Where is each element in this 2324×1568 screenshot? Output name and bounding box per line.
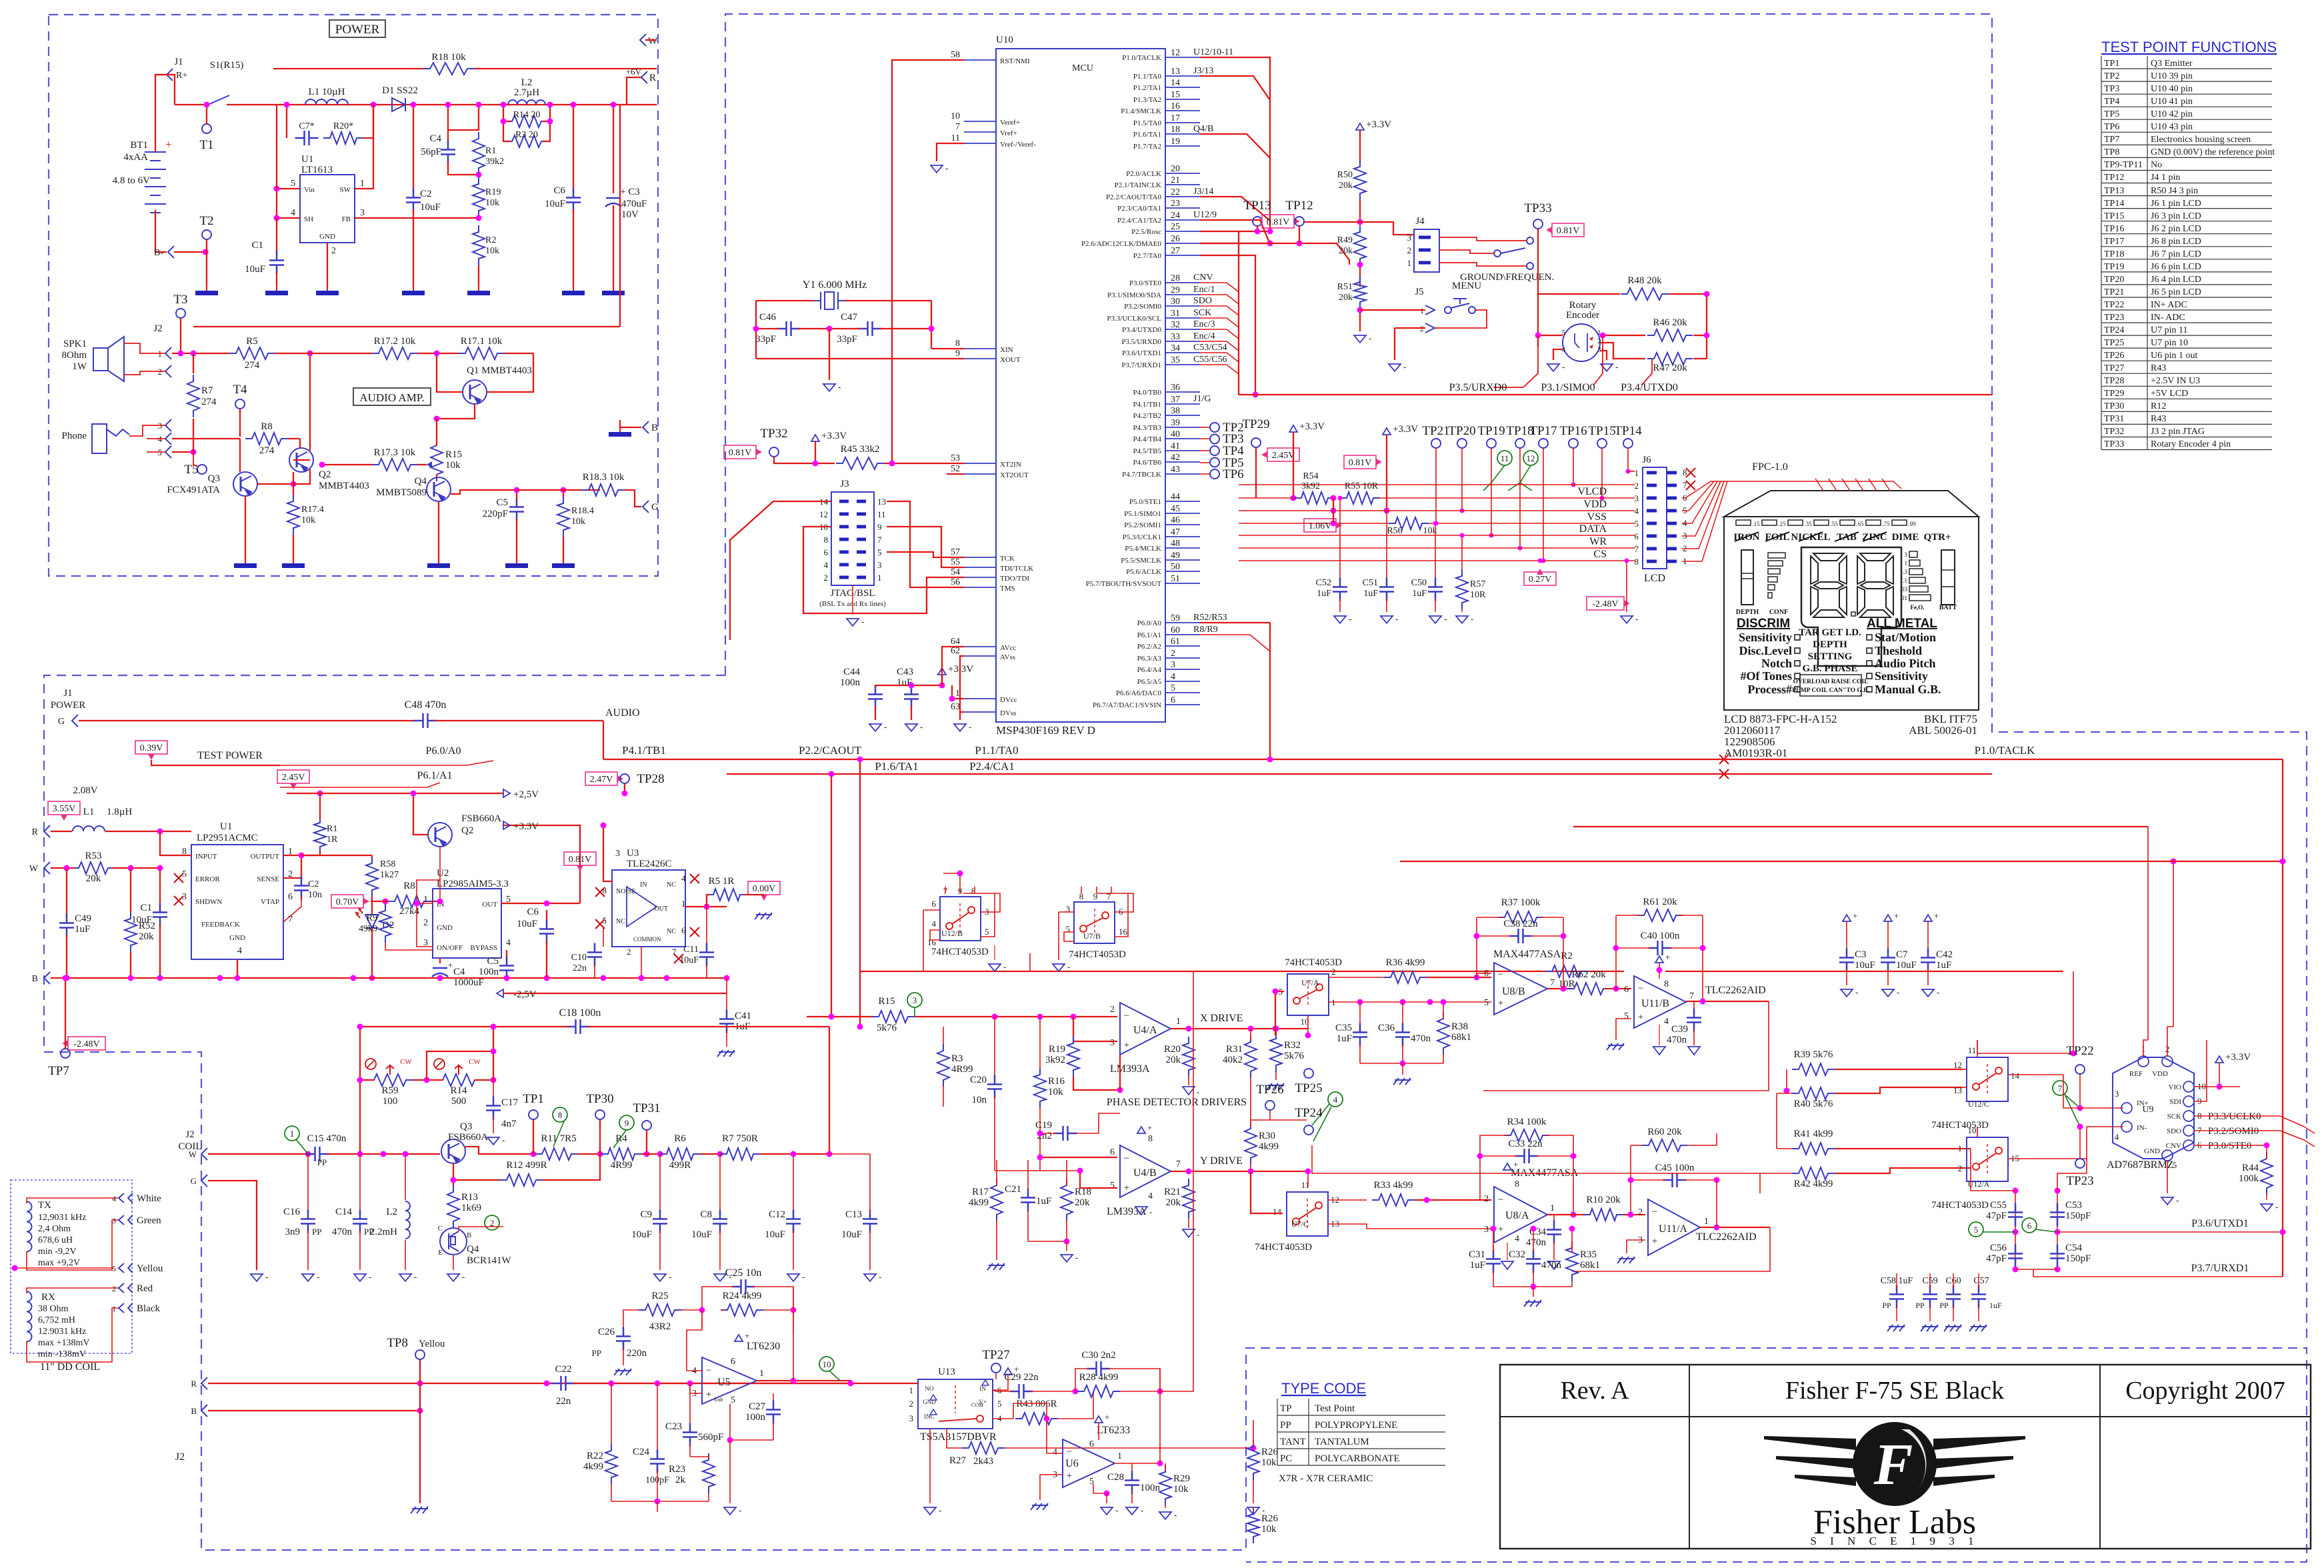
resistor R61 20k <box>1637 909 1683 921</box>
svg-text:74HCT4053D: 74HCT4053D <box>931 947 989 957</box>
svg-text:1W: 1W <box>72 361 87 372</box>
wire rx bottom rail <box>611 1501 709 1502</box>
svg-text:AD7687BRMZ: AD7687BRMZ <box>2107 1159 2173 1171</box>
resistor R20c 20k <box>1183 1037 1195 1077</box>
resistor R2c 10R <box>1545 965 1588 977</box>
resistor R19c 3k92 <box>1067 1037 1079 1077</box>
svg-text:.35: .35 <box>1804 521 1812 527</box>
resistor R57 10R <box>1461 535 1463 573</box>
svg-text:11" DD COIL: 11" DD COIL <box>40 1361 100 1373</box>
svg-text:+2,5V: +2,5V <box>513 789 539 800</box>
wire U12A pins <box>2008 1158 2087 1159</box>
wire U9 vio <box>2219 1086 2240 1087</box>
svg-text:0.70V: 0.70V <box>336 897 359 907</box>
svg-text:U7/C: U7/C <box>1291 1219 1309 1229</box>
wire U5 out <box>757 1381 851 1383</box>
svg-text:TP29: TP29 <box>2104 389 2124 399</box>
svg-text:SCK: SCK <box>1193 308 1211 318</box>
wire crystal top rail <box>756 300 814 301</box>
svg-text:20k: 20k <box>1339 293 1353 303</box>
svg-text:C32: C32 <box>1509 1249 1525 1260</box>
svg-text:5: 5 <box>291 179 295 189</box>
svg-text:NOISE: NOISE <box>616 888 635 895</box>
wire U6 enb <box>1093 1484 1107 1493</box>
svg-text:20k: 20k <box>1166 1197 1181 1208</box>
svg-text:U7/A: U7/A <box>1301 978 1319 987</box>
svg-text:-: - <box>369 1272 371 1282</box>
svg-text:1: 1 <box>360 179 365 189</box>
ground tri C43 <box>911 706 912 720</box>
svg-text:678,6 uH: 678,6 uH <box>38 1235 73 1245</box>
wires TP row verticals <box>1435 448 1437 523</box>
wire U3 out <box>685 906 727 907</box>
svg-text:IN- ADC: IN- ADC <box>2151 313 2185 323</box>
svg-text:BATT: BATT <box>1939 604 1957 611</box>
svg-text:Q2: Q2 <box>319 469 331 480</box>
power +3.3V U9 <box>2215 1056 2223 1063</box>
svg-text:P4.4/TB4: P4.4/TB4 <box>1133 435 1162 443</box>
svg-text:10: 10 <box>1968 1125 1977 1135</box>
svg-text:TP29: TP29 <box>1242 417 1269 431</box>
svg-text:C22: C22 <box>555 1364 571 1375</box>
svg-text:-: - <box>502 1135 505 1145</box>
svg-text:TP20: TP20 <box>1448 424 1475 438</box>
green circle 7 <box>2053 1081 2067 1095</box>
wire battery minus <box>155 210 167 252</box>
resistor R62 20k <box>1567 983 1610 995</box>
svg-text:8: 8 <box>1664 979 1669 989</box>
power arrow U11B plus8 <box>1655 956 1663 963</box>
svg-text:DVss: DVss <box>1000 709 1016 717</box>
svg-text:3: 3 <box>877 560 882 570</box>
svg-text:56: 56 <box>951 577 960 587</box>
svg-text:R62 20k: R62 20k <box>1571 969 1606 980</box>
wire J3 to TDI <box>887 527 964 567</box>
svg-text:P2.6/ADC12CLK/DMAE0: P2.6/ADC12CLK/DMAE0 <box>1081 240 1162 248</box>
POWER section label <box>329 20 385 37</box>
svg-text:10uF: 10uF <box>131 915 152 925</box>
svg-text:P5.0/STE1: P5.0/STE1 <box>1129 498 1161 506</box>
svg-text:P6.6/A6/DAC0: P6.6/A6/DAC0 <box>1116 689 1162 697</box>
wire B rail <box>51 977 727 979</box>
resistor R35 68k1 <box>1566 1241 1578 1281</box>
svg-text:Fe,O,: Fe,O, <box>1911 604 1925 611</box>
svg-text:2: 2 <box>909 1399 914 1409</box>
x marks U1b pins <box>174 873 183 883</box>
svg-text:ON/OFF: ON/OFF <box>437 944 463 952</box>
wire U11A out loop down <box>1572 1227 1770 1271</box>
capacitor C2 10uF <box>413 105 414 193</box>
svg-text:.99: .99 <box>1908 521 1916 527</box>
svg-text:0.81V: 0.81V <box>1267 217 1290 227</box>
svg-text:R52/R53: R52/R53 <box>1193 613 1227 623</box>
capacitor C5b 100n <box>506 950 507 960</box>
svg-text:T1: T1 <box>199 138 213 152</box>
resistor R25 43R2 <box>639 1304 681 1316</box>
svg-text:IN+: IN+ <box>2137 1099 2149 1107</box>
svg-text:XT2IN: XT2IN <box>1000 461 1021 469</box>
svg-text:P3.3/UCLK0: P3.3/UCLK0 <box>2208 1111 2261 1122</box>
wire U7C in <box>1251 1171 1283 1213</box>
resistor R2 10k <box>473 225 485 265</box>
svg-text:P5.6/ACLK: P5.6/ACLK <box>1126 568 1161 576</box>
svg-text:CW: CW <box>469 1058 481 1066</box>
wire J3 left down <box>730 501 831 640</box>
svg-text:8: 8 <box>824 535 829 545</box>
capacitor C16 3n9 <box>307 1154 309 1213</box>
svg-text:GND: GND <box>437 924 453 932</box>
svg-text:TP28: TP28 <box>637 772 664 786</box>
wire U11B pin5 gnd <box>1616 1019 1631 1040</box>
svg-text:+: + <box>1894 911 1899 921</box>
svg-text:−: − <box>1652 1207 1657 1217</box>
svg-text:C13: C13 <box>845 1209 862 1220</box>
svg-text:29: 29 <box>1171 285 1180 295</box>
power +3.3V lcd2 <box>1383 428 1391 435</box>
wire J5 pin2 <box>1395 327 1425 329</box>
svg-text:-: - <box>1471 614 1473 624</box>
svg-text:R5: R5 <box>246 336 258 347</box>
svg-text:5: 5 <box>997 1399 1002 1409</box>
svg-text:P3.5/URXD0: P3.5/URXD0 <box>1121 338 1161 346</box>
green circle 1 <box>285 1126 299 1141</box>
svg-text:-: - <box>1562 362 1565 372</box>
svg-text:10n: 10n <box>972 1095 987 1105</box>
capacitor C24 100pF <box>657 1383 658 1453</box>
svg-text:3: 3 <box>360 208 365 218</box>
svg-text:P5.5/SMCLK: P5.5/SMCLK <box>1121 557 1161 565</box>
svg-text:5: 5 <box>1171 683 1175 693</box>
wire U11B out <box>1686 1001 1769 1002</box>
svg-text:47: 47 <box>1171 527 1180 537</box>
svg-text:TLC2262AID: TLC2262AID <box>1705 985 1766 996</box>
wire TP26 stub <box>1251 1110 1270 1120</box>
wire P3.6 line <box>2057 1231 2283 1233</box>
wire R56 leads <box>1331 508 1337 514</box>
resistor R16 10k <box>1039 1017 1041 1072</box>
svg-text:S I N C E 1 9 3 1: S I N C E 1 9 3 1 <box>1810 1535 1979 1547</box>
wire TP22 stub <box>2079 1074 2081 1108</box>
svg-text:Q3: Q3 <box>208 473 220 484</box>
svg-text:P3.1/SIMO0: P3.1/SIMO0 <box>1541 382 1595 393</box>
IC U1b LP2951ACMC <box>191 845 283 959</box>
transistor Q3c FSB660A <box>441 1139 465 1163</box>
svg-text:FB: FB <box>342 215 351 223</box>
wire J2 pin1 rail <box>172 353 230 354</box>
svg-text:74HCT4053D: 74HCT4053D <box>1255 1242 1312 1253</box>
wire crystal left vertical <box>755 301 757 359</box>
svg-text:TMS: TMS <box>1000 585 1015 593</box>
svg-text:U12/10-11: U12/10-11 <box>1193 47 1233 57</box>
svg-text:LP2951ACMC: LP2951ACMC <box>197 833 258 843</box>
svg-text:3: 3 <box>1905 551 1908 558</box>
wire sense loop <box>283 855 301 878</box>
svg-text:3: 3 <box>2115 1089 2119 1099</box>
svg-text:TCK: TCK <box>1000 555 1015 563</box>
svg-text:R43 806R: R43 806R <box>1016 1399 1057 1409</box>
wire ref vertical long <box>2147 827 2149 1040</box>
svg-text:Enb: Enb <box>715 1397 723 1403</box>
svg-text:C19: C19 <box>1035 1120 1052 1131</box>
svg-text:P1.6/TA1: P1.6/TA1 <box>1133 131 1161 139</box>
svg-text:GND (0.00V) the reference poin: GND (0.00V) the reference point <box>2151 147 2275 157</box>
svg-text:TP25: TP25 <box>2104 338 2124 348</box>
capacitor C60 1uF PP <box>1946 1285 1961 1309</box>
svg-text:2: 2 <box>1331 967 1336 977</box>
svg-text:TDO/TDI: TDO/TDI <box>1000 575 1029 583</box>
svg-text:U8/A: U8/A <box>1505 1210 1529 1221</box>
wire p6.1 line <box>280 783 440 787</box>
resistor R52 20k <box>130 868 131 912</box>
ground tri G coil <box>251 1274 263 1281</box>
svg-text:0.00V: 0.00V <box>753 884 776 894</box>
capacitor C8 10uF <box>719 1154 721 1213</box>
svg-text:TP20: TP20 <box>2104 275 2124 285</box>
svg-text:L2: L2 <box>386 1207 397 1217</box>
resistor R10 20k <box>1583 1209 1623 1221</box>
testpoint TP28 <box>585 772 617 785</box>
svg-text:10uF: 10uF <box>691 1229 712 1240</box>
resistor R42 4k99 <box>1792 1167 1835 1179</box>
testpoint TP1 <box>529 1110 538 1119</box>
wire XIN <box>931 348 964 349</box>
svg-text:2.08V: 2.08V <box>73 785 97 796</box>
svg-text:2.7µH: 2.7µH <box>514 87 539 98</box>
connector J2 pins 3-5 <box>165 419 171 431</box>
voltage 0.70V <box>331 895 363 908</box>
testpoint TP7 <box>61 1049 70 1058</box>
svg-text:57: 57 <box>951 547 960 557</box>
svg-text:J4 1 pin: J4 1 pin <box>2151 173 2180 183</box>
svg-text:220pF: 220pF <box>483 509 508 519</box>
svg-text:Sensitivity: Sensitivity <box>1875 669 1928 683</box>
ground earth C41 <box>717 1050 735 1057</box>
svg-text:-: - <box>2176 1195 2179 1205</box>
wire R15 input line <box>807 1016 873 1017</box>
svg-text:DEPTH: DEPTH <box>1813 639 1847 650</box>
pin 3 Green <box>119 1215 124 1225</box>
svg-text:+: + <box>1652 1236 1657 1247</box>
svg-text:31: 31 <box>1171 309 1180 319</box>
svg-text:11: 11 <box>1501 453 1509 463</box>
testpoint T4 <box>235 399 245 409</box>
power/audio section border box <box>49 15 658 576</box>
svg-text:7: 7 <box>1635 544 1639 554</box>
svg-text:C51: C51 <box>1363 578 1378 588</box>
svg-text:P1.6/TA1: P1.6/TA1 <box>875 760 918 773</box>
svg-text:1uF: 1uF <box>1363 589 1378 599</box>
svg-text:TP12: TP12 <box>1285 199 1313 213</box>
svg-text:SHDWN: SHDWN <box>195 898 222 906</box>
svg-text:FSB660A: FSB660A <box>461 813 501 824</box>
audio amp label box <box>353 388 431 405</box>
svg-text:min -138mV: min -138mV <box>38 1349 86 1359</box>
svg-text:B: B <box>651 423 658 433</box>
svg-text:SENSE: SENSE <box>257 875 279 883</box>
svg-text:R39 5k76: R39 5k76 <box>1794 1049 1833 1060</box>
svg-text:7: 7 <box>877 535 882 545</box>
wire Q3c collector <box>465 1147 533 1154</box>
svg-text:Q2: Q2 <box>461 825 473 836</box>
TX coil <box>27 1202 32 1252</box>
svg-text:Green: Green <box>137 1215 161 1226</box>
wire pot row <box>360 1079 374 1081</box>
svg-text:47pF: 47pF <box>1986 1211 2007 1221</box>
svg-text:E: E <box>438 1249 443 1257</box>
svg-text:6: 6 <box>932 899 937 909</box>
svg-text:QTR+: QTR+ <box>1923 532 1951 543</box>
resistor R7 274 <box>193 353 194 373</box>
svg-text:Fisher F-75 SE Black: Fisher F-75 SE Black <box>1785 1377 2004 1405</box>
ground tri J3 <box>847 619 859 626</box>
svg-text:42: 42 <box>1171 453 1180 463</box>
svg-text:100n: 100n <box>479 967 499 977</box>
inductor L1b 1.8uH <box>73 826 105 831</box>
resistor R8 274 <box>245 433 288 445</box>
svg-text:60: 60 <box>1171 625 1180 635</box>
wire J5 pin1 <box>1360 309 1425 311</box>
testpoint T3 <box>176 309 185 318</box>
svg-text:TP3: TP3 <box>2104 84 2119 94</box>
switch J4 contacts <box>1494 237 1533 269</box>
wire G coil <box>201 1175 207 1187</box>
svg-text:C47: C47 <box>841 312 858 323</box>
svg-text:TP16: TP16 <box>1559 424 1587 438</box>
svg-text:P1.4/SMCLK: P1.4/SMCLK <box>1121 107 1161 115</box>
svg-text:XOUT: XOUT <box>1000 356 1021 364</box>
svg-text:8: 8 <box>1635 557 1639 567</box>
svg-text:+: + <box>1147 1123 1152 1133</box>
resistor R18.4 10k <box>563 490 564 499</box>
svg-text:TP1: TP1 <box>523 1092 544 1106</box>
wire R to L1 <box>51 831 72 832</box>
svg-text:C15 470n: C15 470n <box>307 1133 347 1144</box>
wire U9 pins right <box>2194 1116 2304 1127</box>
svg-text:TEST POWER: TEST POWER <box>197 750 263 761</box>
capacitor C35 1uF <box>1359 1002 1361 1027</box>
svg-text:64: 64 <box>951 637 960 647</box>
ground tri U4B <box>1135 1207 1147 1215</box>
svg-text:1.06V: 1.06V <box>1309 521 1332 531</box>
capacitor C14 470n <box>359 1154 361 1213</box>
svg-text:TANT: TANT <box>1280 1437 1306 1447</box>
capacitor C31 1uF <box>1493 1245 1494 1253</box>
analog switch U7/C <box>1287 1192 1328 1236</box>
svg-text:L1: L1 <box>83 807 95 817</box>
capacitor C55 47pF <box>2015 1191 2016 1269</box>
wire U1 FB <box>355 217 479 219</box>
svg-text:2: 2 <box>627 947 631 957</box>
wire pins 28-35 fan <box>1200 283 1239 292</box>
svg-text:R51: R51 <box>1337 282 1353 292</box>
wire TP12 stub <box>1299 226 1300 243</box>
svg-text:12: 12 <box>1171 48 1180 58</box>
svg-text:3: 3 <box>913 995 917 1005</box>
wire +2.5V rail <box>287 793 503 794</box>
svg-text:20k: 20k <box>1166 1055 1181 1065</box>
svg-text:1: 1 <box>759 1369 764 1379</box>
svg-text:R46 20k: R46 20k <box>1653 317 1687 328</box>
svg-text:C: C <box>438 1225 443 1233</box>
svg-text:27: 27 <box>1171 246 1180 256</box>
svg-text:OUT: OUT <box>654 905 668 913</box>
svg-text:NC: NC <box>667 928 676 935</box>
resistor R14 20 <box>505 115 548 127</box>
svg-text:C35: C35 <box>1335 1023 1352 1033</box>
resistor R37 100k <box>1498 911 1543 923</box>
svg-text:DIME: DIME <box>1892 532 1919 543</box>
ground tri U12B <box>994 945 995 960</box>
svg-text:8: 8 <box>1515 1179 1519 1189</box>
svg-text:P3.4/UTXD0: P3.4/UTXD0 <box>1122 326 1161 334</box>
svg-text:P3.6/UTXD1: P3.6/UTXD1 <box>1122 349 1161 357</box>
svg-text:16: 16 <box>1119 927 1128 937</box>
svg-text:10n: 10n <box>308 890 322 900</box>
capacitor C59 1uF PP <box>1923 1285 1937 1309</box>
svg-text:7: 7 <box>1550 978 1555 988</box>
svg-text:-: - <box>1349 614 1351 624</box>
resistor R8b 27k4 <box>388 895 431 907</box>
svg-text:C5: C5 <box>496 497 508 508</box>
svg-text:SW: SW <box>340 186 351 194</box>
svg-text:6: 6 <box>681 925 686 935</box>
svg-text:+: + <box>706 1389 711 1400</box>
wire U12C ctl vertical <box>1977 971 2073 1053</box>
wire J3 to TCK <box>887 552 964 557</box>
ground tri Q4c <box>447 1274 459 1281</box>
svg-text:25: 25 <box>1171 222 1180 232</box>
svg-text:SH: SH <box>304 215 313 223</box>
svg-text:0.81V: 0.81V <box>1557 226 1580 236</box>
svg-text:R36 4k99: R36 4k99 <box>1386 957 1425 968</box>
svg-text:R5 1R: R5 1R <box>709 876 735 887</box>
wire Y drive output <box>1171 1171 1308 1172</box>
svg-text:+5V LCD: +5V LCD <box>2151 389 2188 399</box>
svg-text:TP12: TP12 <box>2104 173 2124 183</box>
svg-text:J2: J2 <box>175 1451 185 1463</box>
svg-text:Encoder: Encoder <box>1566 310 1599 321</box>
svg-text:TP17: TP17 <box>1529 424 1557 438</box>
wire P6 fan 60 <box>1200 635 1270 651</box>
LCD module drawing <box>1724 491 1979 710</box>
svg-text:2: 2 <box>423 918 428 928</box>
wire c31 group <box>1493 1271 1572 1287</box>
op-amp U4/B LM393A <box>1120 1145 1171 1197</box>
svg-text:-: - <box>1174 1510 1177 1520</box>
svg-text:TP23: TP23 <box>2066 1174 2093 1188</box>
svg-text:C4: C4 <box>453 967 465 977</box>
wire R2 line <box>860 971 1624 972</box>
title block table <box>1500 1365 2311 1549</box>
svg-text:C33 22n: C33 22n <box>1508 1139 1543 1149</box>
svg-text:4: 4 <box>1333 1095 1338 1105</box>
wire U11B out loop <box>1483 1001 1769 1091</box>
wire Q4c emitter <box>453 1255 454 1270</box>
capacitor C41 1uF <box>726 978 727 1013</box>
wire U5 enb <box>730 1404 773 1440</box>
svg-text:-2,5V: -2,5V <box>513 989 537 1000</box>
svg-text:+: + <box>1513 1159 1518 1169</box>
svg-text:FCX491ATA: FCX491ATA <box>167 485 220 495</box>
svg-text:13: 13 <box>877 497 886 507</box>
inductor L2 2.7uH <box>508 100 545 105</box>
svg-text:PHASE DETECTOR DRIVERS: PHASE DETECTOR DRIVERS <box>1107 1097 1247 1108</box>
svg-text:P2.1/TAINCLK: P2.1/TAINCLK <box>1115 181 1161 189</box>
wire U5 to U13 <box>851 1383 918 1384</box>
svg-text:R3 20: R3 20 <box>515 130 538 140</box>
svg-text:U7 pin 11: U7 pin 11 <box>2151 325 2187 335</box>
transistor Q4 MMBT5089 <box>427 477 451 501</box>
